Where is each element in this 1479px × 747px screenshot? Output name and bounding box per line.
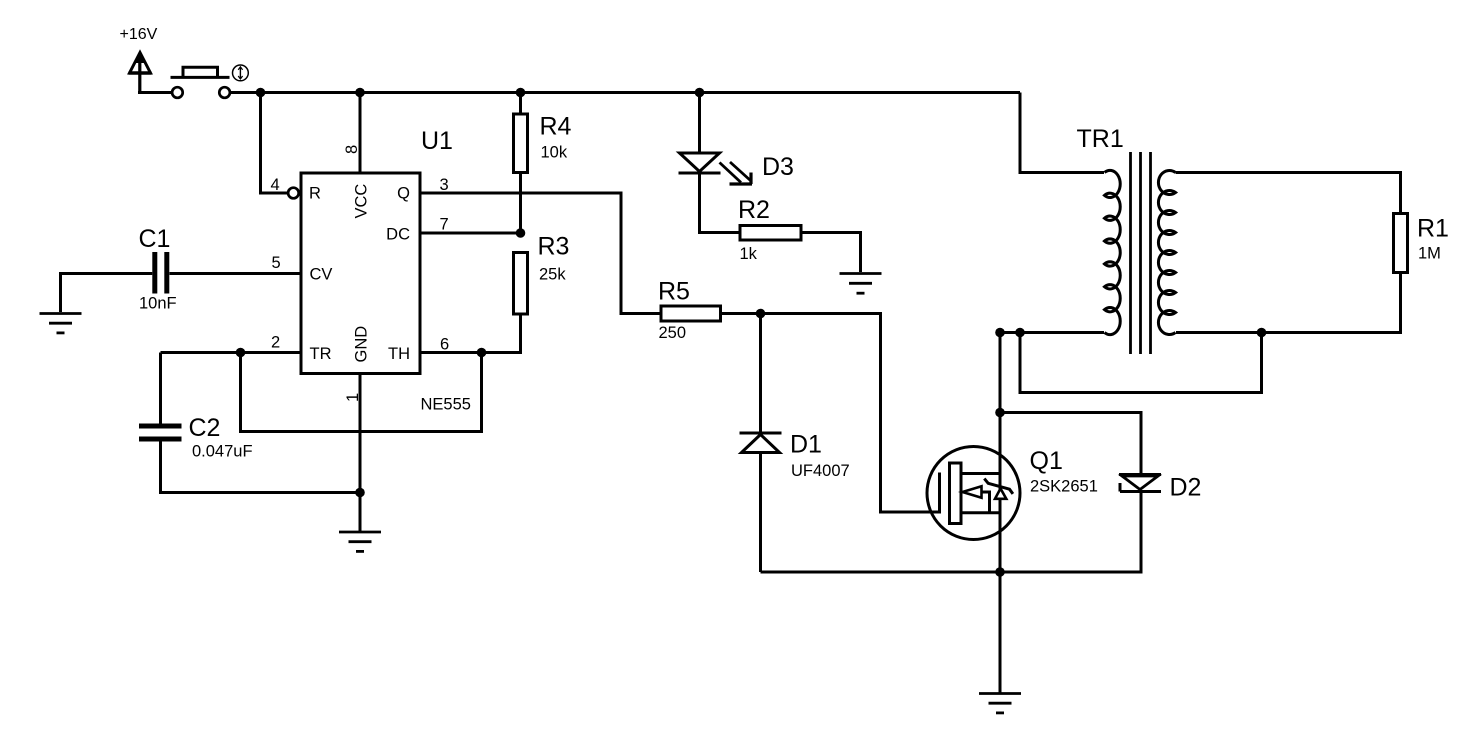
node junction top rail to pin8	[355, 88, 365, 98]
ground at U1 pin1	[339, 532, 381, 551]
wire lower loop secondary bottom to primary bottom	[1020, 333, 1262, 393]
diode D1 cathode bar	[740, 432, 782, 435]
wire D3 cathode to R2	[700, 175, 741, 233]
switch S1 button cap	[183, 67, 218, 77]
svg-text:GND: GND	[353, 326, 371, 363]
wire drain chain from transformer to ground	[999, 333, 1002, 694]
svg-text:NE555: NE555	[421, 396, 471, 414]
zener diode D2	[1119, 475, 1161, 492]
IC U1 body	[301, 173, 420, 374]
wire D2 top branch	[1000, 413, 1141, 474]
MOSFET Q1 body link	[982, 492, 990, 513]
capacitor C1 plates	[155, 252, 167, 294]
transformer TR1 primary winding	[1105, 170, 1121, 334]
resistor R3	[514, 253, 528, 315]
node junction primary bottom at x=1020	[1015, 328, 1025, 338]
wire R1 bottom to secondary bottom lead	[1176, 273, 1401, 333]
MOSFET Q1 drain tab	[961, 472, 1000, 475]
wire D1 anode down to source rail	[759, 453, 762, 573]
svg-text:D2: D2	[1170, 474, 1202, 502]
wire R4 bottom to DC node (crosses Q wire)	[519, 173, 522, 234]
svg-text:25k: 25k	[539, 266, 566, 284]
diode D1 triangle	[742, 435, 780, 453]
svg-text:1k: 1k	[740, 245, 758, 263]
wire pin4 branch	[261, 93, 289, 194]
switch S1 right terminal circle	[219, 87, 230, 98]
resistor R1	[1394, 214, 1408, 273]
node junction top rail to pin4	[256, 88, 266, 98]
svg-text:8: 8	[343, 145, 361, 154]
svg-text:3: 3	[440, 176, 449, 194]
wire GND pin1 down to ground	[359, 374, 362, 532]
node junction top rail to R4	[516, 88, 526, 98]
wire R2 to ground	[801, 233, 861, 273]
svg-text:C1: C1	[139, 225, 171, 253]
wire TR branch down to C2	[159, 353, 162, 424]
ground at C1	[40, 314, 82, 333]
wire D1 branch from R5 node down	[759, 314, 762, 434]
wire TR to TH link below IC	[241, 353, 482, 432]
MOSFET Q1 body diode	[984, 479, 1013, 499]
svg-text:D1: D1	[790, 431, 822, 459]
node junction primary bottom at x=1000	[995, 328, 1005, 338]
svg-text:10k: 10k	[541, 144, 568, 162]
wire D3 anode branch	[698, 93, 701, 154]
node junction source rail	[995, 567, 1005, 577]
capacitor C2 plates	[139, 426, 182, 439]
MOSFET Q1 channel bar	[950, 463, 962, 524]
wire D2 bottom to source rail	[761, 493, 1142, 572]
svg-text:7: 7	[440, 216, 449, 234]
wire pin8 VCC branch	[359, 93, 362, 174]
svg-text:C2: C2	[189, 414, 221, 442]
wire R5 to gate corner	[721, 314, 940, 513]
svg-text:UF4007: UF4007	[791, 462, 850, 480]
svg-text:R3: R3	[538, 233, 570, 261]
resistor R4	[514, 114, 528, 173]
svg-text:2: 2	[271, 334, 280, 352]
node junction DC R4 R3	[516, 228, 526, 238]
svg-text:DC: DC	[386, 226, 410, 244]
node junction drain and D2 top	[995, 408, 1005, 418]
svg-text:0.047uF: 0.047uF	[192, 443, 253, 461]
switch S1 left terminal circle	[172, 87, 183, 98]
svg-text:10nF: 10nF	[139, 295, 177, 313]
svg-text:5: 5	[272, 254, 281, 272]
svg-text:Q1: Q1	[1030, 447, 1063, 475]
MOSFET Q1 gate electrode	[938, 473, 941, 514]
svg-text:U1: U1	[421, 127, 453, 155]
svg-text:R1: R1	[1417, 215, 1449, 243]
svg-text:CV: CV	[310, 266, 333, 284]
svg-text:VCC: VCC	[353, 184, 371, 219]
node junction pin1 and C2	[355, 488, 365, 498]
svg-text:R5: R5	[658, 278, 690, 306]
wire C1 left to ground	[61, 274, 153, 313]
wire CV pin5 to C1	[170, 272, 302, 275]
ground at R2	[840, 274, 882, 294]
svg-text:Q: Q	[397, 185, 410, 203]
svg-text:4: 4	[271, 176, 280, 194]
MOSFET Q1 circle	[927, 447, 1020, 540]
wire R4 top stub	[519, 93, 522, 115]
LED D3 triangle	[680, 153, 720, 172]
wire top rail right corner down to transformer primary	[1020, 93, 1104, 173]
wire DC pin7 to R4/R3	[420, 232, 521, 235]
wire primary bottom lead	[1000, 331, 1104, 334]
LED D3 cathode bar	[679, 172, 721, 175]
switch S1 actuator bar	[171, 76, 230, 79]
svg-text:D3: D3	[762, 153, 794, 181]
power symbol +16V arrow	[129, 51, 152, 93]
wire power arrow to switch left terminal	[138, 91, 172, 94]
node junction TR link	[236, 348, 246, 358]
MOSFET Q1 body arrow	[963, 486, 982, 497]
wire C2 bottom to pin1 node	[161, 442, 361, 493]
wire TR pin2	[161, 351, 302, 354]
node junction R5 output to D1	[756, 309, 766, 319]
node junction secondary bottom	[1257, 328, 1267, 338]
svg-text:+16V: +16V	[120, 26, 158, 43]
svg-text:2SK2651: 2SK2651	[1030, 478, 1098, 496]
MOSFET Q1 source tab	[961, 511, 1000, 514]
resistor R2	[740, 226, 801, 241]
svg-text:1M: 1M	[1418, 245, 1441, 263]
LED D3 light arrows	[720, 162, 753, 184]
svg-text:250: 250	[659, 324, 687, 342]
node junction top rail to D3	[695, 88, 705, 98]
transformer TR1 core	[1131, 152, 1151, 354]
wire secondary top lead to R1	[1176, 173, 1401, 214]
svg-text:R: R	[309, 185, 321, 203]
reset bubble on pin 4	[288, 188, 299, 199]
wire R3 bottom to TH pin6	[420, 314, 521, 353]
svg-text:TH: TH	[388, 345, 410, 363]
transformer TR1 secondary winding	[1158, 171, 1175, 335]
svg-text:TR1: TR1	[1077, 125, 1124, 153]
resistor R5	[661, 306, 721, 321]
svg-text:R4: R4	[540, 113, 572, 141]
svg-text:TR: TR	[310, 345, 332, 363]
switch S1 mode circle with up-down arrow	[233, 65, 249, 81]
wire Q output pin3 to R5	[420, 193, 661, 314]
node junction TH link	[477, 348, 487, 358]
ground at Q1 source	[979, 694, 1021, 713]
svg-text:6: 6	[440, 336, 449, 354]
wire top rail	[230, 91, 1020, 94]
svg-text:R2: R2	[738, 196, 770, 224]
